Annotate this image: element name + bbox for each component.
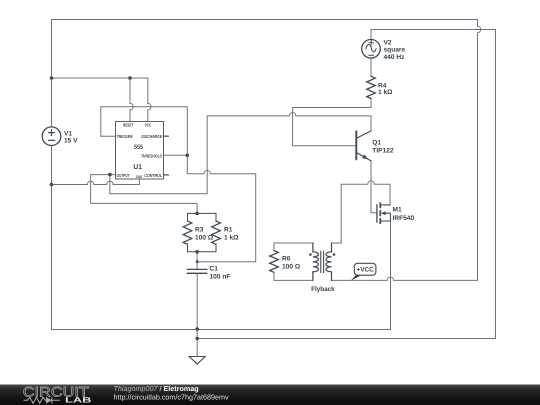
node output branch xyxy=(108,173,112,177)
svg-text:100 Ω: 100 Ω xyxy=(282,264,301,271)
svg-text:V1: V1 xyxy=(64,130,72,137)
label R6 xyxy=(282,255,301,270)
wire trigger loop to cap top xyxy=(101,107,256,262)
wire 555 supply row y=78 xyxy=(52,77,148,79)
wire R node bottom to C1 xyxy=(196,252,198,269)
wire output left branch to R top node xyxy=(91,175,198,214)
mosfet M1 xyxy=(376,205,378,222)
wire M1 drain to transformer right coil top, hop over emitter xyxy=(341,181,390,243)
transformer right coil xyxy=(326,243,331,280)
transistor Q1 xyxy=(355,131,357,159)
net flag +VCC xyxy=(351,263,376,280)
svg-text:VCC: VCC xyxy=(145,123,152,128)
svg-text:M1: M1 xyxy=(393,207,402,214)
wire top rail V1+ to right xyxy=(52,19,478,21)
wire right rail A (top rail down to +VCC wire, hop over V2 wire) xyxy=(478,20,481,281)
ground symbol xyxy=(189,357,205,365)
transformer left coil xyxy=(313,243,318,280)
label R1 xyxy=(224,227,239,242)
svg-text:R1: R1 xyxy=(224,227,233,234)
wire C1 bottom to ground xyxy=(196,273,198,356)
wire R4 bottom to Q1 base xyxy=(293,99,371,146)
svg-text:IRF540: IRF540 xyxy=(393,215,415,222)
resistor R1 xyxy=(212,221,221,244)
svg-text:1 kΩ: 1 kΩ xyxy=(224,235,239,242)
wire R6 bottom to left coil xyxy=(274,272,313,281)
wire reset drop with hop xyxy=(130,78,133,122)
555 pin labels xyxy=(117,123,163,180)
footer logo zigzag and diode xyxy=(24,397,60,404)
svg-text:+VCC: +VCC xyxy=(356,267,374,274)
wire R6 top to left coil xyxy=(274,243,313,252)
wire vcc drop with hop xyxy=(148,78,151,122)
node ground row 1 xyxy=(195,327,199,331)
svg-text:Q1: Q1 xyxy=(372,139,381,146)
svg-text:100 nF: 100 nF xyxy=(210,273,231,280)
555 box U1 xyxy=(116,122,164,180)
svg-text:555: 555 xyxy=(134,144,143,151)
svg-text:CONTROL: CONTROL xyxy=(144,173,162,178)
wire right rail B down xyxy=(495,30,497,339)
footer bar xyxy=(0,385,540,405)
svg-text:THRESHOLD: THRESHOLD xyxy=(141,153,162,158)
wire output right branch to Q1 collector xyxy=(110,113,371,194)
svg-text:100 Ω: 100 Ω xyxy=(195,235,214,242)
svg-text:TIP122: TIP122 xyxy=(372,148,394,155)
node threshold-trigger xyxy=(186,154,190,158)
resistor R3 xyxy=(183,221,192,244)
svg-text:Thiagomp007 / Eletromag: Thiagomp007 / Eletromag xyxy=(114,384,199,393)
wire V2 top to right rail B xyxy=(371,30,496,40)
node R top xyxy=(195,212,199,216)
svg-text:R6: R6 xyxy=(282,255,291,262)
svg-text:square: square xyxy=(384,47,406,54)
node cap-trigger tee xyxy=(196,260,199,263)
capacitor C1 xyxy=(187,269,206,273)
svg-text:U1: U1 xyxy=(133,164,142,171)
node V1 plus to 555 supply xyxy=(50,76,54,80)
node V1 minus gnd row xyxy=(50,183,54,187)
transformer phase dot right xyxy=(333,253,336,256)
label M1 xyxy=(393,207,415,222)
wire right coil top lead xyxy=(332,243,342,252)
wire threshold to trigger vertical xyxy=(164,154,188,156)
svg-text:R3: R3 xyxy=(195,227,204,234)
transformer core xyxy=(321,251,324,272)
label Q1 xyxy=(372,139,394,154)
node ground row 2 xyxy=(195,337,199,341)
transformer phase dot left xyxy=(309,253,312,256)
wire left rail bottom + bottom row 1 xyxy=(52,146,391,330)
voltage source V2 xyxy=(362,40,381,59)
555 control stub xyxy=(164,174,169,176)
svg-text:RESET: RESET xyxy=(123,123,134,128)
wire ground row 2 to right rail B xyxy=(197,338,495,340)
svg-text:TRIGGER: TRIGGER xyxy=(117,134,134,139)
resistor leads R3 R1 parallel bars xyxy=(188,213,217,251)
svg-text:1 kΩ: 1 kΩ xyxy=(378,89,393,96)
wire right coil bottom lead xyxy=(331,272,333,281)
svg-text:GND: GND xyxy=(136,175,143,179)
wire +VCC row with hop over source xyxy=(332,277,478,280)
mosfet M1 arrow xyxy=(381,211,386,215)
voltage source V1 xyxy=(42,127,61,146)
node R bottom xyxy=(195,250,199,254)
svg-text:15 V: 15 V xyxy=(64,137,78,144)
svg-text:LAB: LAB xyxy=(65,395,92,404)
resistor R4 xyxy=(367,76,376,98)
label V2 xyxy=(384,40,406,62)
svg-text:OUTPUT: OUTPUT xyxy=(117,173,130,178)
label C1 xyxy=(210,266,231,281)
label V1 xyxy=(64,130,78,144)
svg-text:http://circuitlab.com/c7hg7at6: http://circuitlab.com/c7hg7at689emv xyxy=(114,393,229,402)
resistor R6 xyxy=(270,251,279,273)
wire left rail top (V1 top) xyxy=(51,20,53,127)
555 discharge stub xyxy=(164,135,169,137)
svg-text:V2: V2 xyxy=(384,40,392,47)
wire V2 bottom to R4 xyxy=(370,58,372,76)
wire gnd pin to left rail with two hops xyxy=(52,179,140,185)
svg-text:Flyback: Flyback xyxy=(311,286,335,293)
svg-text:C1: C1 xyxy=(210,266,219,273)
svg-text:DISCHARGE: DISCHARGE xyxy=(141,134,162,139)
svg-text:440 Hz: 440 Hz xyxy=(384,54,406,61)
label R3 xyxy=(195,227,214,242)
node reset branch xyxy=(128,76,132,80)
transistor Q1 emitter arrow xyxy=(362,154,368,159)
wire M1 source down xyxy=(390,221,392,330)
label R4 xyxy=(378,82,393,96)
wire Q1 emitter to M1 gate xyxy=(371,161,376,213)
